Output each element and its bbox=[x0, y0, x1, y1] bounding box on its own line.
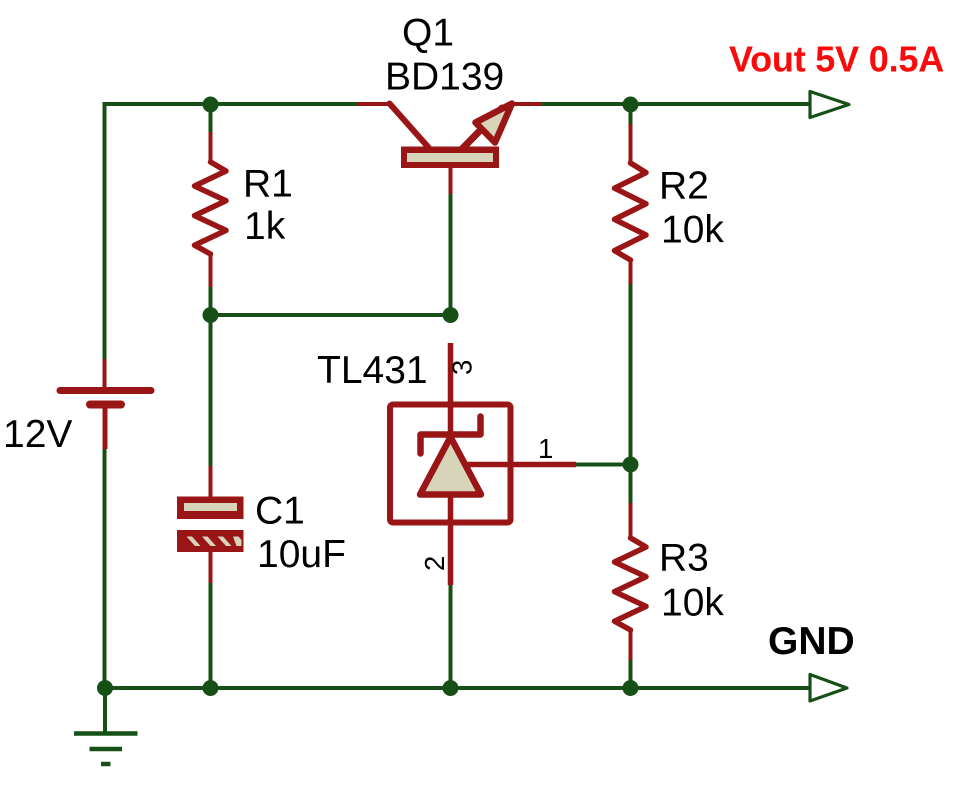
transistor Q1 BD139: collector diagonal bbox=[390, 104, 430, 149]
svg-text:2: 2 bbox=[419, 556, 450, 571]
wire: R1 bottom green to node bbox=[209, 287, 213, 315]
wire: R1 top green bbox=[209, 104, 213, 132]
ground symbol bbox=[74, 688, 138, 764]
node dot: R1 bottom node bbox=[203, 307, 219, 323]
resistor R1 1k zigzag bbox=[195, 162, 227, 254]
svg-text:BD139: BD139 bbox=[385, 56, 504, 99]
svg-text:Q1: Q1 bbox=[402, 12, 454, 55]
svg-text:R3: R3 bbox=[659, 537, 709, 580]
TL431: anode lead (pin 2) red bbox=[448, 495, 454, 586]
wire: Q1 base stub red bbox=[449, 168, 453, 194]
wire: C1 top lead (red) bbox=[209, 466, 213, 498]
wire: R3 bottom green bbox=[629, 660, 633, 688]
wire: R2 top lead red bbox=[629, 124, 633, 164]
Vout output arrow bbox=[810, 92, 849, 118]
wire: battery top lead (red) bbox=[103, 359, 107, 388]
svg-text:10k: 10k bbox=[661, 209, 724, 252]
wire: R3 top lead red bbox=[629, 503, 633, 539]
wire: collector lead red on rail bbox=[358, 102, 390, 106]
node dot: R1 top bbox=[203, 97, 219, 113]
svg-text:R1: R1 bbox=[243, 163, 293, 206]
wire: pin1 green to R2/R3 junction bbox=[576, 463, 631, 467]
battery B1: short negative plate bbox=[90, 401, 121, 409]
svg-text:Vout 5V 0.5A: Vout 5V 0.5A bbox=[729, 39, 944, 80]
wire: C1 bottom green bbox=[209, 583, 213, 688]
wire: R2 top green bbox=[629, 104, 633, 124]
TL431: diode triangle bbox=[420, 437, 481, 495]
node dot: ref junction bbox=[623, 457, 639, 473]
svg-text:TL431: TL431 bbox=[317, 349, 428, 392]
TL431: zener cathode bar with hooks bbox=[421, 417, 481, 454]
capacitor C1 10uF: top plate bbox=[177, 497, 244, 520]
TL431 U1: body box bbox=[390, 405, 511, 523]
wire: R1 top lead (red) bbox=[209, 132, 213, 163]
svg-text:10uF: 10uF bbox=[257, 533, 346, 576]
wire: base green down to node bbox=[449, 194, 453, 315]
svg-text:1: 1 bbox=[538, 433, 553, 464]
capacitor C1: bottom plate with hatch bbox=[177, 530, 244, 552]
wire: battery bottom lead (red) bbox=[103, 405, 108, 450]
wire: top rail right segment bbox=[542, 102, 811, 106]
resistor R2 10k zigzag bbox=[615, 163, 647, 260]
node dot: R3 ground bbox=[623, 680, 639, 696]
svg-text:R2: R2 bbox=[659, 165, 709, 208]
svg-text:GND: GND bbox=[768, 620, 855, 663]
wire: left vertical + top rail left segment bbox=[105, 104, 359, 359]
svg-text:C1: C1 bbox=[255, 490, 305, 533]
node dot: base node bbox=[443, 307, 459, 323]
wire: R1 bottom lead (red) bbox=[209, 254, 213, 287]
node dot: TL431 anode ground bbox=[443, 680, 459, 696]
wire: R2 bottom lead red bbox=[629, 260, 633, 284]
wire: C1 bottom lead (red) bbox=[209, 552, 213, 583]
wire: anode green to ground rail bbox=[449, 585, 453, 688]
wire: node horizontal from R1 to TL431 branch bbox=[211, 313, 451, 317]
wire: left vertical bottom (green) bbox=[103, 449, 107, 688]
TL431: cathode lead (pin 3) red bbox=[448, 343, 454, 437]
wire: R3 top green bbox=[629, 465, 633, 504]
svg-text:1k: 1k bbox=[244, 205, 286, 248]
wire: C1 top green bbox=[209, 315, 213, 466]
wire: bottom ground rail bbox=[105, 686, 811, 690]
node dot: R2 top bbox=[623, 97, 639, 113]
wire: R3 bottom lead red bbox=[629, 630, 633, 660]
GND output arrow bbox=[810, 675, 847, 702]
svg-text:12V: 12V bbox=[3, 413, 72, 456]
resistor R3 10k zigzag bbox=[615, 538, 647, 630]
node dot: C1 ground bbox=[203, 680, 219, 696]
TL431: reference lead (pin 1) red bbox=[466, 462, 576, 468]
transistor Q1: emitter diagonal bbox=[462, 108, 503, 150]
svg-text:10k: 10k bbox=[661, 582, 724, 625]
svg-text:3: 3 bbox=[447, 360, 478, 375]
transistor Q1: emitter arrowhead bbox=[476, 104, 513, 143]
transistor Q1: base bar bbox=[401, 147, 499, 169]
node dot: ground left bbox=[97, 680, 113, 696]
wire: emitter lead red on rail bbox=[511, 102, 542, 106]
wire: R2 bottom green bbox=[629, 284, 633, 465]
battery B1 12V: long positive plate bbox=[60, 387, 151, 394]
